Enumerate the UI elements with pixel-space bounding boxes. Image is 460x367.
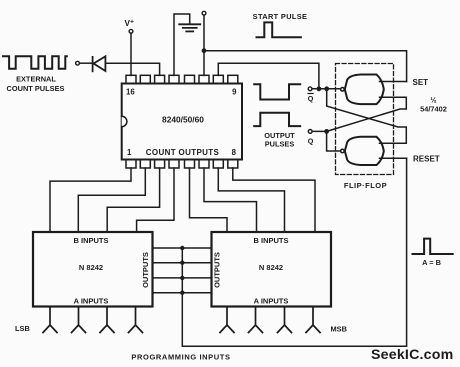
svg-text:LSB: LSB xyxy=(15,324,30,333)
svg-text:A = B: A = B xyxy=(422,258,441,267)
svg-text:½: ½ xyxy=(430,96,436,105)
pin 14 (top) xyxy=(155,75,165,83)
diode D1 xyxy=(93,56,106,71)
svg-text:A INPUTS: A INPUTS xyxy=(254,297,289,306)
junction node Q cross xyxy=(324,129,329,134)
wire outputs to bottom rail and up to RESET xyxy=(182,158,406,346)
pin 7 (bottom) xyxy=(213,160,223,169)
svg-text:PULSES: PULSES xyxy=(265,140,295,149)
svg-text:OUTPUTS: OUTPUTS xyxy=(141,252,150,288)
wire pin 1 to B input 1 (left) xyxy=(50,168,131,232)
start pulse terminal xyxy=(202,11,206,15)
svg-text:START PULSE: START PULSE xyxy=(253,12,308,21)
svg-text:16: 16 xyxy=(126,88,135,97)
svg-text:A INPUTS: A INPUTS xyxy=(74,297,109,306)
Q label xyxy=(308,137,314,146)
svg-text:54/7402: 54/7402 xyxy=(420,104,447,113)
pin 10 (top) xyxy=(213,75,223,83)
wire pin 2 to B input 2 (left) xyxy=(78,168,145,232)
svg-text:9: 9 xyxy=(232,88,237,97)
label EXTERNAL COUNT PULSES xyxy=(7,75,65,93)
IC labels xyxy=(126,88,237,158)
pin 2 (bottom) xyxy=(140,160,150,169)
ground xyxy=(174,14,200,75)
Q-bar label xyxy=(308,94,314,103)
junction node Q-bar cross xyxy=(324,86,329,91)
START PULSE label xyxy=(253,12,308,21)
svg-text:RESET: RESET xyxy=(413,155,440,164)
OUTPUT PULSES label xyxy=(264,131,295,148)
wire start rail to SET xyxy=(204,51,407,82)
wire pin 7 to B input 3 (right) xyxy=(218,168,284,232)
svg-text:N 8242: N 8242 xyxy=(259,263,283,272)
Q terminal xyxy=(308,130,312,134)
comparator U3 N 8242 (MSB) xyxy=(212,232,332,307)
svg-text:FLIP·FLOP: FLIP·FLOP xyxy=(344,181,387,190)
MSB label xyxy=(331,324,347,333)
cross wire B (Q to top gate input) xyxy=(327,97,407,131)
NOR gate U4b (bottom) xyxy=(341,137,384,165)
SeekIC watermark xyxy=(371,347,453,363)
A input arrow 3 (left chip) xyxy=(100,307,114,333)
junction start rail xyxy=(202,48,207,53)
half 54/7402 label xyxy=(420,96,447,114)
V+ terminal xyxy=(129,29,133,33)
svg-text:MSB: MSB xyxy=(331,324,347,333)
cross wire A (Q-bar to bottom gate input) xyxy=(327,89,407,144)
wire terminal to diode xyxy=(79,62,92,64)
wire RESET input xyxy=(380,157,407,159)
input terminal xyxy=(76,61,80,65)
pin 6 (bottom) xyxy=(199,160,209,169)
junction node Q-bar rail xyxy=(317,86,322,91)
wire pin 6 to B input 2 (right) xyxy=(204,168,257,232)
junction dots on output bus xyxy=(180,246,184,295)
svg-text:B INPUTS: B INPUTS xyxy=(73,236,108,245)
svg-text:COUNT PULSES: COUNT PULSES xyxy=(7,84,65,93)
pin 16 (top) xyxy=(126,75,136,83)
svg-text:SeekIC.com: SeekIC.com xyxy=(371,347,453,363)
pin 4 (bottom) xyxy=(169,160,179,169)
pin 11 (top) xyxy=(199,75,209,83)
pin 9 (top) xyxy=(228,75,238,83)
Q-bar output pulse waveform xyxy=(254,84,300,99)
pin 12 (top) xyxy=(185,75,195,83)
svg-text:Q: Q xyxy=(308,137,314,146)
output bus line 3 xyxy=(153,277,212,279)
wire pin 8 to B input 4 (right) xyxy=(233,168,315,232)
svg-text:EXTERNAL: EXTERNAL xyxy=(16,75,56,84)
external count pulses waveform xyxy=(3,56,67,69)
wire Q-bar to gate xyxy=(312,88,341,90)
wire SET input xyxy=(380,81,407,83)
A input arrow 1 (right chip) xyxy=(220,307,234,333)
svg-text:B INPUTS: B INPUTS xyxy=(253,236,288,245)
LSB label xyxy=(15,324,30,333)
A input arrow 2 (right chip) xyxy=(249,307,263,333)
Q-bar terminal xyxy=(308,87,312,91)
pin 13 (top) xyxy=(169,75,179,83)
flip-flop dashed box xyxy=(336,64,394,175)
svg-text:OUTPUTS: OUTPUTS xyxy=(213,252,222,288)
pin 1 (bottom) xyxy=(126,160,136,169)
A input arrow 1 (left chip) xyxy=(43,307,57,333)
svg-text:PROGRAMMING INPUTS: PROGRAMMING INPUTS xyxy=(131,352,230,361)
svg-text:8: 8 xyxy=(232,148,237,157)
A input arrow 4 (right chip) xyxy=(306,307,320,333)
NOR gate U4a (top) xyxy=(341,75,384,105)
pin 5 (bottom) xyxy=(185,160,195,169)
wire start terminal to pin 11 xyxy=(203,15,205,75)
output bus line 2 xyxy=(153,262,212,264)
RESET label xyxy=(413,155,440,164)
start pulse waveform xyxy=(257,22,301,37)
svg-text:1: 1 xyxy=(127,148,132,157)
wire V+ to pin 16 xyxy=(130,33,132,75)
wire Q to bottom gate xyxy=(312,131,341,151)
wire pin 4 to B input 4 (left) xyxy=(137,168,174,232)
FLIP-FLOP label xyxy=(344,181,387,190)
pin 8 (bottom) xyxy=(228,160,238,169)
output bus line 4 xyxy=(153,292,212,294)
A input arrow 4 (left chip) xyxy=(129,307,143,333)
output bus line 1 xyxy=(153,247,212,249)
svg-text:SET: SET xyxy=(413,78,429,87)
PROGRAMMING INPUTS label xyxy=(131,352,230,361)
svg-text:COUNT OUTPUTS: COUNT OUTPUTS xyxy=(146,148,220,157)
wire pin 10 to Q-bar terminal xyxy=(218,63,319,89)
SET label xyxy=(413,78,429,87)
A input arrow 2 (left chip) xyxy=(72,307,86,333)
A=B label xyxy=(422,258,441,267)
svg-text:8240/50/60: 8240/50/60 xyxy=(162,115,204,125)
svg-text:N 8242: N 8242 xyxy=(79,263,103,272)
V+ label xyxy=(125,18,134,28)
wire pin 5 to B input 1 (right) xyxy=(190,168,228,232)
pin 3 (bottom) xyxy=(155,160,165,169)
A input arrow 3 (right chip) xyxy=(278,307,292,333)
comparator U2 N 8242 (LSB) xyxy=(33,232,153,307)
pin 15 (top) xyxy=(140,75,150,83)
Q output pulse waveform xyxy=(254,113,300,126)
wire pin 3 to B input 3 (left) xyxy=(107,168,159,232)
svg-text:Q: Q xyxy=(308,94,314,103)
A=B waveform xyxy=(413,239,453,254)
wire diode to pin 14 xyxy=(105,63,159,75)
IC U1 8240/50/60 xyxy=(122,84,242,160)
